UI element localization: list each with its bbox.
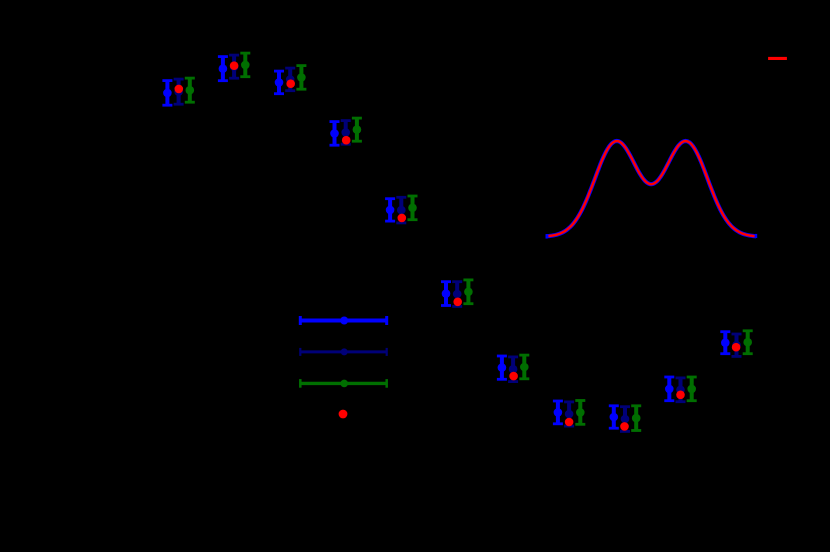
- red fit curve overlaid on blue curve: [548, 141, 754, 236]
- blue curve left end tick: [545, 234, 547, 239]
- data point 10: dark-blue series error bar: [676, 378, 686, 402]
- legend entry: blue series (line + marker): [300, 316, 386, 325]
- data point 4: dark-blue series error bar: [341, 121, 351, 145]
- data point 11: blue series error bar: [720, 332, 730, 354]
- data point 3: blue series error bar: [274, 71, 284, 94]
- blue model curve (double gaussian): [546, 141, 756, 236]
- data point 5: red series marker: [398, 214, 407, 223]
- data point 8: dark-blue series error bar: [564, 402, 574, 426]
- data point 1: dark-blue series error bar: [174, 79, 184, 104]
- data point 9: blue series error bar: [609, 406, 619, 428]
- data point 2: red series marker: [230, 61, 239, 70]
- data point 1: red series marker: [175, 85, 184, 94]
- data point 4: green series error bar: [352, 118, 362, 141]
- data point 11: red series marker: [732, 343, 741, 352]
- data point 8: green series error bar: [575, 401, 585, 425]
- data point 11: green series error bar: [743, 331, 753, 354]
- data point 3: red series marker: [286, 79, 295, 88]
- data point 11: dark-blue series error bar: [732, 334, 742, 356]
- data point 6: red series marker: [453, 298, 462, 307]
- data point 10: green series error bar: [687, 377, 697, 401]
- data point 7: dark-blue series error bar: [508, 357, 518, 382]
- blue curve right end tick: [755, 234, 757, 238]
- data point 2: blue series error bar: [218, 57, 228, 81]
- data point 9: green series error bar: [631, 406, 641, 431]
- data point 7: red series marker: [509, 372, 518, 381]
- data point 1: green series error bar: [185, 78, 195, 102]
- data point 1: blue series error bar: [162, 81, 172, 106]
- legend marker: red fit-curve line sample (top right): [768, 57, 787, 60]
- data point 2: dark-blue series error bar: [229, 55, 239, 78]
- legend entry: red series marker: [339, 410, 348, 419]
- data point 2: green series error bar: [240, 53, 250, 77]
- data point 6: blue series error bar: [441, 282, 451, 306]
- legend entry: green series (line + marker): [300, 379, 386, 388]
- data point 4: red series marker: [342, 136, 351, 145]
- data point 5: blue series error bar: [385, 199, 395, 221]
- data point 10: red series marker: [676, 391, 685, 400]
- data point 7: green series error bar: [519, 355, 529, 379]
- legend entry: dark-blue series (line + marker): [300, 348, 386, 356]
- data point 4: blue series error bar: [330, 122, 340, 146]
- data point 8: blue series error bar: [553, 401, 563, 424]
- data point 9: red series marker: [620, 422, 629, 431]
- data point 5: green series error bar: [408, 196, 418, 220]
- data point 6: green series error bar: [463, 280, 473, 304]
- data point 6: dark-blue series error bar: [452, 282, 462, 307]
- data point 10: blue series error bar: [664, 377, 674, 401]
- data point 3: green series error bar: [296, 66, 306, 90]
- data point 7: blue series error bar: [497, 356, 507, 379]
- data point 3: dark-blue series error bar: [285, 68, 295, 91]
- data point 8: red series marker: [565, 418, 574, 427]
- data point 9: dark-blue series error bar: [620, 407, 630, 432]
- data point 5: dark-blue series error bar: [396, 197, 406, 223]
